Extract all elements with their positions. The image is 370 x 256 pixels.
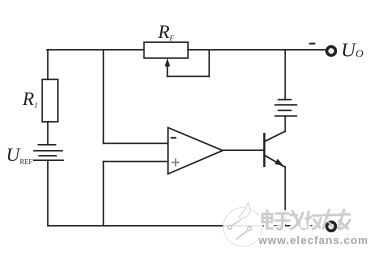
wire R1 to battery UREF — [47, 122, 49, 145]
wire left rail top — [47, 50, 49, 80]
battery UREF plate 4 long — [34, 159, 63, 161]
wire RF wiper loop horizontal — [167, 75, 209, 77]
wire noninverting input horizontal — [103, 161, 168, 163]
svg-text:UREF: UREF — [6, 145, 33, 166]
battery B1 plate 4 long — [275, 115, 296, 117]
watermark logo — [223, 202, 262, 247]
resistor R1 body — [42, 79, 58, 121]
wire top rail left segment — [47, 49, 145, 51]
potentiometer RF body — [144, 42, 188, 58]
wire noninverting input vertical to bottom rail — [102, 162, 104, 226]
battery B1 plate 2 long — [275, 104, 296, 106]
wire battery B1 drop from node C — [284, 50, 286, 100]
battery UREF plate 2 long — [34, 150, 62, 152]
battery B1 plate 1 short — [278, 99, 291, 101]
battery UREF plate 3 short — [39, 155, 56, 157]
wire op-amp output to base — [223, 149, 264, 151]
svg-text:R1: R1 — [22, 89, 38, 110]
RF wiper arrow — [166, 65, 168, 77]
svg-text:www.elecfans.com: www.elecfans.com — [258, 235, 369, 247]
battery B1 plate 3 short — [278, 109, 291, 111]
wire battery UREF to bottom rail — [47, 160, 49, 226]
wire RF wiper loop vertical to node B — [208, 50, 210, 77]
label minus polarity of UO — [310, 43, 315, 45]
svg-text:UO: UO — [341, 40, 363, 62]
wire emitter vertical — [284, 167, 286, 226]
wire inverting input horizontal — [103, 142, 168, 144]
op-amp U1 — [168, 128, 223, 174]
wire battery B1 to collector — [284, 116, 286, 131]
watermark text dianzifashaoyou — [263, 210, 351, 229]
terminal UO bottom — [327, 222, 336, 231]
svg-text:RF: RF — [157, 22, 175, 43]
wire inverting input vertical from node A — [102, 50, 104, 144]
transistor Q1 — [263, 134, 265, 166]
battery UREF plate 1 short — [38, 144, 55, 146]
watermark url www.elecfans.com — [258, 235, 369, 247]
terminal UO top — [327, 47, 336, 56]
wire bottom rail — [48, 225, 327, 227]
wire top rail right segment — [188, 49, 327, 51]
